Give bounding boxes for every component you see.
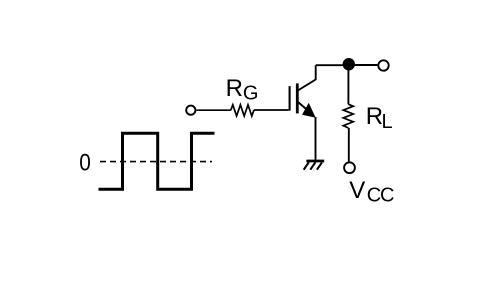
transistor Q1 (IGBT) xyxy=(290,65,316,117)
emitter lead xyxy=(298,102,310,112)
svg-text:CC: CC xyxy=(367,185,394,207)
resistor RG xyxy=(231,105,254,116)
wire RL to VCC terminal xyxy=(348,128,350,162)
svg-text:V: V xyxy=(349,177,365,204)
ground xyxy=(304,161,325,170)
svg-text:L: L xyxy=(382,111,393,133)
wire node to RL xyxy=(347,65,349,104)
wire collector to node xyxy=(316,64,349,66)
wire emitter to ground xyxy=(315,117,317,162)
zero-reference dashed line xyxy=(100,161,212,163)
wire node to output terminal xyxy=(349,64,378,66)
wire RG to gate xyxy=(254,109,289,111)
node collector junction xyxy=(343,58,355,70)
resistor RL xyxy=(343,104,353,128)
svg-text:R: R xyxy=(366,103,383,130)
emitter arrowhead xyxy=(303,104,315,117)
square-wave input signal xyxy=(100,133,213,189)
gate bar xyxy=(289,86,291,111)
collector lead xyxy=(298,65,316,90)
output terminal xyxy=(378,60,388,70)
input terminal xyxy=(186,106,195,115)
svg-text:0: 0 xyxy=(79,148,91,176)
VCC terminal xyxy=(344,162,355,173)
svg-text:G: G xyxy=(243,83,259,105)
body bar xyxy=(296,83,299,113)
wire input to RG xyxy=(196,109,231,111)
svg-text:R: R xyxy=(226,75,243,102)
